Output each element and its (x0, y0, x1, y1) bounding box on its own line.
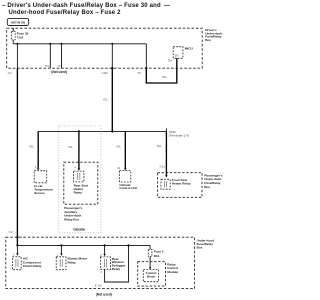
terminal arrow blower relay (60, 254, 63, 256)
svg-text:MICU: MICU (185, 47, 194, 51)
svg-text:ControlBlock: ControlBlock (146, 271, 157, 278)
node bus3 junction A (16, 244, 18, 246)
svg-text:20: 20 (117, 166, 120, 170)
terminal arrow control block (149, 267, 152, 269)
terminal arrow front seat relay (165, 175, 168, 177)
wire G7 vertical feed (16, 68, 18, 237)
svg-text:3 (L): 3 (L) (159, 165, 165, 169)
svg-text:(Not used): (Not used) (96, 292, 112, 296)
relay front seat heater box (161, 179, 170, 189)
wire H9 drop (49, 44, 51, 68)
node bus3 junction D (127, 244, 129, 246)
wire T6 drop inside box (145, 44, 147, 68)
node 10D bus junction (111, 43, 113, 45)
relay front seat coil strokes (164, 181, 166, 187)
wire C9 into box (16, 237, 18, 245)
wire to rear window defogger relay (104, 245, 106, 254)
svg-text:7.5A: 7.5A (17, 36, 24, 40)
node bus3 junction B (60, 244, 62, 246)
wire T6 to MICU loop (146, 58, 177, 83)
svg-text:YEL: YEL (29, 144, 35, 148)
terminal arrow climate (124, 168, 127, 170)
relay rear seat coil strokes (77, 173, 79, 180)
driver's under-dash fuse/relay box outline (7, 28, 203, 68)
svg-text:E (4): E (4) (95, 284, 102, 288)
svg-text:30A: 30A (154, 254, 160, 258)
svg-text:C9: C9 (9, 230, 13, 234)
svg-text:H9: H9 (45, 64, 49, 68)
node H9 junction (49, 43, 51, 45)
wire fuse30 feed (12, 28, 14, 44)
node T6 edge junction (145, 67, 147, 69)
wire to blower motor relay (60, 245, 62, 253)
fuse 30 (11, 32, 15, 40)
passenger's under-dash fuse/relay box outline (158, 173, 202, 198)
connector C511 stub (165, 128, 167, 131)
wire to climate control unit (124, 131, 126, 168)
wire 10D drop inside box (111, 44, 113, 68)
svg-text:G7: G7 (8, 71, 12, 75)
svg-text:HOT IN ON: HOT IN ON (11, 20, 25, 24)
node G7 bus junction (16, 43, 18, 45)
wire to in-car temperature sensor (37, 131, 39, 168)
bus inside driver's box (13, 43, 146, 45)
svg-text:—: — (164, 3, 170, 9)
wire to front seat heater relay (165, 131, 167, 175)
svg-text:Under-hood Fuse/Relay Box – Fu: Under-hood Fuse/Relay Box – Fuse 2 (9, 10, 122, 16)
svg-text:YEL: YEL (156, 144, 162, 148)
relay A/C compressor clutch box (12, 257, 21, 270)
control block box (143, 269, 158, 281)
svg-text:6M: 6M (175, 54, 178, 57)
svg-text:Canada: Canada (73, 227, 85, 231)
node bus2-10D junction (111, 130, 113, 132)
HOT IN ON badge (7, 18, 28, 25)
terminal arrow rear seat relay (78, 169, 81, 171)
wire to rear seat heater relay (78, 131, 80, 168)
node bus2 rear-seat junction (78, 130, 80, 132)
climate control unit box (119, 171, 130, 182)
node bus3 junction C (104, 244, 106, 246)
wire defogger relay loop to bus (105, 245, 129, 282)
relay rear window defogger box (100, 257, 110, 269)
svg-text:(Terminals 1,4): (Terminals 1,4) (169, 133, 189, 137)
node 10D edge junction (111, 67, 113, 69)
relay blower motor box (56, 257, 66, 270)
wire to A/C compressor clutch relay (16, 245, 18, 253)
relay A/C coil strokes (15, 259, 17, 267)
svg-text:– Driver's Under-dash Fuse/Rel: – Driver's Under-dash Fuse/Relay Box – F… (2, 3, 161, 9)
svg-text:YEL: YEL (103, 98, 109, 102)
terminal arrow sensor (37, 168, 40, 170)
wire 10D vertical feed (111, 68, 113, 131)
in-car temperature sensor box (34, 171, 47, 183)
node C9 edge junction (16, 236, 18, 238)
under-hood fuse/relay box outline (6, 237, 195, 288)
op-amp MICU box (173, 47, 183, 59)
canada region dotted box (59, 126, 101, 233)
svg-text:T6: T6 (137, 71, 141, 75)
terminal arrow A/C relay (16, 254, 19, 256)
svg-text:YEL: YEL (116, 145, 122, 149)
wire G7 drop inside box (16, 44, 18, 68)
under-hood distribution bus (17, 244, 150, 246)
passenger's auxiliary under-dash relay box outline (64, 162, 98, 204)
svg-text:(Not used): (Not used) (51, 70, 67, 74)
relay blower coil strokes (59, 259, 61, 267)
svg-text:J7: J7 (57, 64, 61, 68)
terminal arrow defogger relay (103, 254, 106, 256)
relay rear seat heater box (74, 171, 84, 182)
fuse 2 (148, 249, 152, 256)
wire fuse2 to control block (149, 257, 151, 268)
wire fuse2 feed (149, 245, 151, 249)
relay defogger coil strokes (103, 259, 105, 267)
svg-text:10D: 10D (102, 71, 108, 75)
middle distribution bus (38, 130, 166, 132)
wire J7 drop (61, 44, 63, 68)
svg-text:YEL: YEL (162, 75, 168, 79)
svg-text:YEL: YEL (68, 145, 74, 149)
node J7 junction (60, 43, 62, 45)
relay control module box (138, 262, 166, 286)
